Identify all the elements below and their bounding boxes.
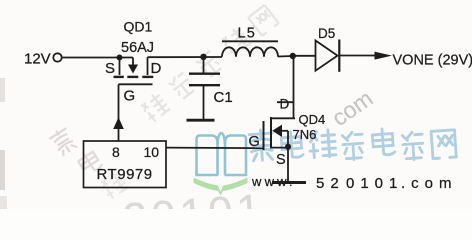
wire D5 to output arrow [339, 55, 378, 57]
junction dot QD4 source [285, 144, 291, 150]
520101.com pink/gray text [316, 175, 458, 192]
inductor L5 coil [222, 47, 278, 57]
QD4 body arrow tail [282, 130, 289, 132]
watermark big blue chars 家电维修资料网 [249, 128, 456, 161]
logo book icon [197, 133, 247, 176]
junction dot QD1 source node [117, 55, 123, 61]
QD4 gate line [263, 121, 265, 150]
svg-text:S: S [276, 152, 286, 168]
svg-text:0101: 0101 [346, 175, 403, 192]
left edge scan smudges [0, 78, 5, 102]
QD1 drain plate [147, 57, 149, 75]
QD1 gate wire down to pin 8 [118, 84, 120, 141]
QD1 source plate [119, 58, 121, 76]
QD4 drain tick [277, 101, 294, 103]
svg-text:RT9979: RT9979 [97, 166, 153, 183]
svg-text:8: 8 [112, 144, 120, 160]
L5 overline [222, 40, 278, 42]
QD1 channel dash 3 [142, 76, 153, 78]
QD4 body arrowhead [272, 125, 282, 137]
C1 plate top [189, 73, 220, 75]
QD1 channel dash 2 [127, 76, 138, 78]
IC RT9979 box [84, 141, 167, 188]
QD4 drain bar [271, 117, 295, 119]
QD4 source bar [270, 147, 288, 149]
svg-text:C1: C1 [214, 89, 233, 106]
svg-text:S: S [105, 60, 115, 77]
svg-text:.com: .com [401, 175, 458, 192]
svg-text:QD1: QD1 [124, 19, 153, 35]
svg-text:L5: L5 [238, 26, 257, 42]
output arrowhead [375, 52, 393, 60]
QD1 gate bar [119, 83, 153, 85]
watermark diagonal gray char C [98, 170, 128, 200]
svg-text:D: D [280, 97, 290, 112]
svg-text:52: 52 [316, 175, 345, 192]
logo green swoosh [194, 178, 248, 196]
svg-text:G: G [124, 87, 136, 104]
12V terminal circle [53, 53, 61, 61]
svg-text:12V: 12V [24, 51, 51, 68]
wire QD1 drain to C1 node to L5 [148, 56, 223, 58]
QD1 body arrow tail [132, 58, 134, 66]
watermark diagonal gray char A [48, 125, 78, 157]
C1 bottom lead [203, 85, 205, 119]
watermark diagonal gray chars mid [139, 5, 279, 124]
pin8 up arrowhead [113, 117, 124, 129]
junction dot C1 node [200, 54, 206, 60]
junction dot L5/D5/QD4 node [290, 53, 296, 59]
svg-text:QD4: QD4 [299, 112, 326, 127]
watermark diagonal gray char B [76, 147, 104, 175]
QD4 drain wire from node [293, 56, 295, 118]
svg-text:D: D [151, 60, 162, 77]
wire node to D5 anode [293, 55, 316, 57]
wire RT9979 pin10 to QD4 gate [166, 147, 264, 150]
svg-text:10: 10 [144, 144, 160, 160]
C1 plate bottom [189, 84, 220, 86]
diode D5 cathode bar [338, 40, 340, 72]
C1 top lead [203, 57, 205, 73]
svg-text:D5: D5 [318, 26, 335, 41]
QD1 channel dash 1 [114, 76, 124, 78]
svg-text:VONE (29V): VONE (29V) [393, 52, 472, 68]
svg-text:G: G [249, 134, 260, 150]
wire L5 to node [278, 55, 293, 58]
QD4 source wire down [287, 131, 289, 181]
QD1 body arrow head [128, 65, 138, 74]
svg-text:56AJ: 56AJ [121, 40, 154, 56]
ground bar under C1 [187, 119, 215, 122]
wire 12V to QD1 source [62, 57, 133, 59]
svg-text:7N6: 7N6 [293, 127, 317, 142]
QD4 channel line [270, 117, 272, 148]
diode D5 triangle [316, 41, 338, 71]
ground bar under QD4 [272, 181, 306, 184]
